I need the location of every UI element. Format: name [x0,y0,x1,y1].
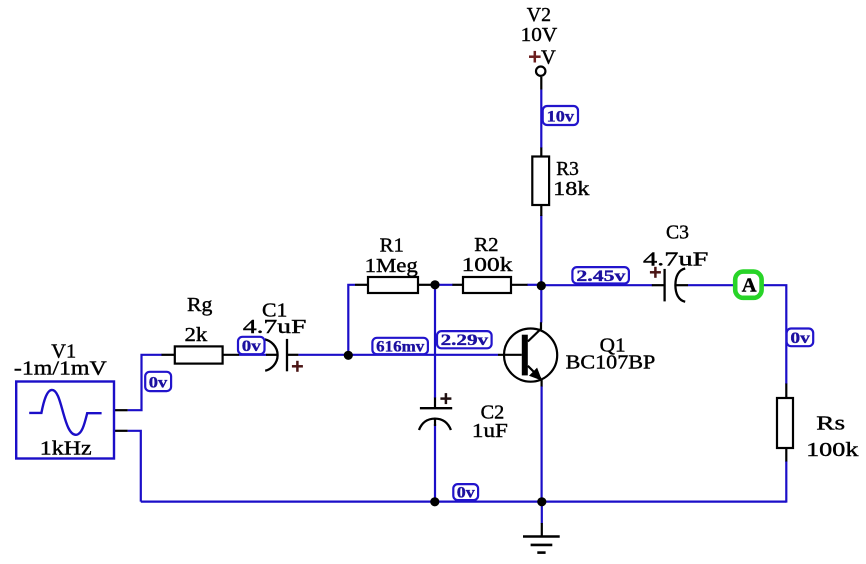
svg-text:4.7uF: 4.7uF [243,316,307,338]
svg-text:616mv: 616mv [376,338,424,355]
capacitor C2 [419,393,452,430]
svg-text:A: A [742,275,757,297]
junction collector node [537,281,546,290]
svg-text:2k: 2k [185,324,209,346]
svg-text:BC107BP: BC107BP [566,352,656,374]
svg-text:V2: V2 [527,4,551,26]
wire C3 to node A [688,284,736,286]
voltage source V1 [16,382,114,459]
wire V1 plus output to Rg [115,355,162,410]
transistor Q1 [498,322,557,386]
svg-text:-1m/1mV: -1m/1mV [14,357,107,379]
node voltage label 0v at Rs [787,329,814,347]
node voltage label 2.45v [572,267,629,285]
wire V1 minus output to bottom rail [115,431,141,502]
svg-text:R1: R1 [380,235,404,257]
junction emitter rail node [537,497,546,506]
junction R1R2 node [430,280,439,289]
wire V2 terminal to R3 [540,77,542,148]
svg-text:100k: 100k [462,254,514,276]
wire node A to Rs [761,285,787,384]
resistor R2 [452,277,527,293]
node voltage label 10v [543,106,578,126]
junction C2 rail node [430,497,439,506]
svg-text:1Meg: 1Meg [365,255,418,277]
resistor R3 [532,148,549,217]
node voltage label 0v at V1 [145,372,171,392]
svg-text:2.29v: 2.29v [441,332,489,349]
capacitor C3 [650,267,688,302]
junction base node [344,351,353,360]
wire R1R2 node down to C2 [434,285,436,398]
wire collector node to C3 [541,284,652,286]
svg-text:Rs: Rs [816,413,845,435]
wire Rs to bottom rail [785,461,787,503]
svg-text:1uF: 1uF [472,420,508,442]
svg-text:4.7uF: 4.7uF [643,248,708,270]
V2 +V symbol label [529,46,556,68]
svg-text:0v: 0v [790,330,810,347]
node A [735,272,761,298]
wire C2 to bottom rail [434,424,436,502]
wire R1 to R2 [431,284,453,286]
svg-text:V: V [541,46,556,68]
ground [523,523,560,553]
power terminal V2 [536,67,545,76]
resistor R1 [355,277,432,293]
svg-text:1kHz: 1kHz [40,438,92,460]
wire bottom ground rail [141,501,787,503]
resistor Rs [777,384,793,462]
wire R2 to collector node [527,284,542,286]
svg-text:0v: 0v [149,375,168,392]
wire Q1 emitter to bottom rail [540,386,542,502]
svg-text:100k: 100k [806,439,859,461]
svg-text:10V: 10V [521,24,558,46]
wire R3 to collector node [540,215,542,323]
wire C1 to base node [298,354,348,356]
svg-text:C3: C3 [666,222,689,244]
svg-text:10v: 10v [547,109,574,126]
wire Rg to C1 [239,354,267,356]
node voltage label 0v at rail [453,484,478,501]
svg-text:18k: 18k [553,178,590,200]
wire base node to R1 [348,285,355,356]
svg-text:2.45v: 2.45v [576,268,625,285]
node voltage label 0v at C1 [238,337,265,355]
wire base node to Q1 base [348,354,498,356]
resistor Rg [162,346,240,363]
capacitor C1 [265,339,303,372]
wire rail to ground symbol [541,502,543,524]
svg-text:0v: 0v [457,484,475,501]
svg-text:Rg: Rg [187,294,212,316]
node voltage label 2.29v [437,331,492,349]
node voltage label 616mv [372,338,428,356]
svg-text:0v: 0v [242,338,261,355]
